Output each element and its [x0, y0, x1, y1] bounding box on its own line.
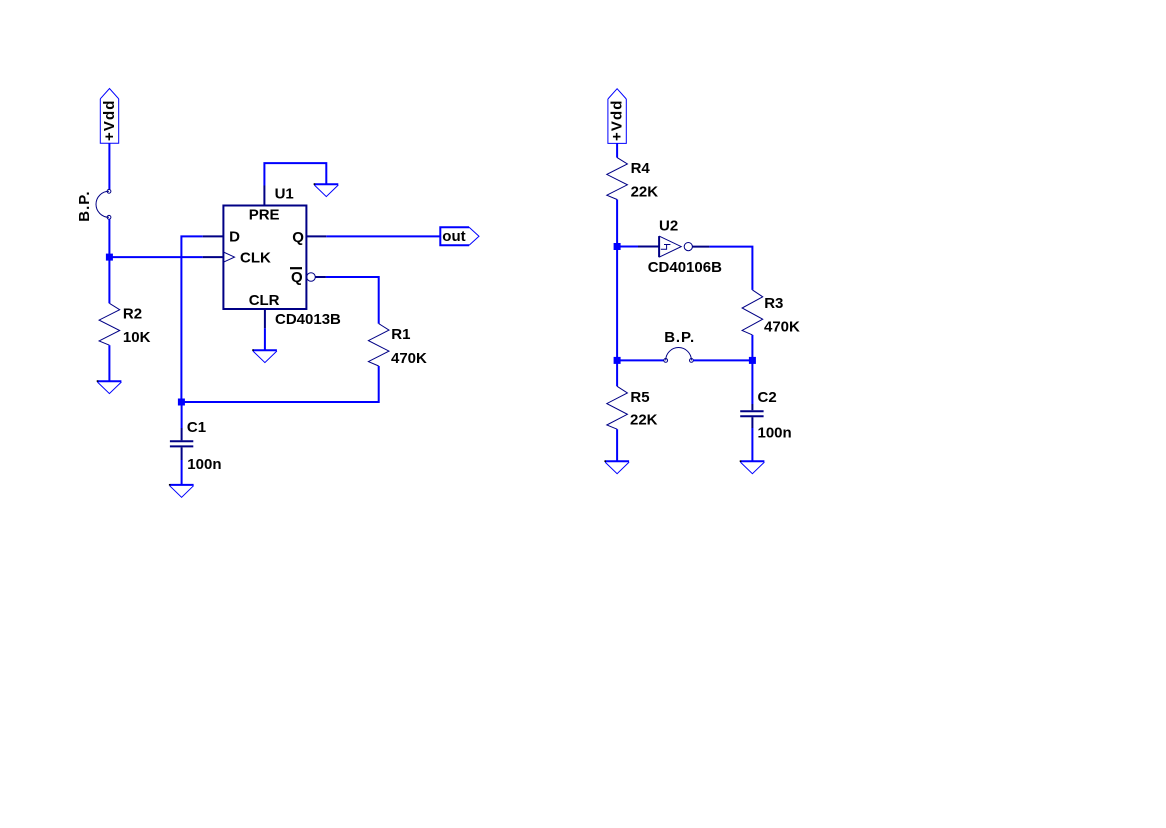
junction node (left, R5/button) — [614, 357, 621, 364]
junction node (left rail to CLK) — [106, 254, 113, 261]
inverter U2 (Schmitt) — [638, 236, 709, 257]
wire R3 to right node — [751, 335, 753, 361]
wire Q to out flag — [326, 235, 440, 237]
wire D feedback (D pin down to bottom rail) — [181, 236, 202, 402]
svg-text:U2: U2 — [659, 217, 678, 234]
svg-text:CLK: CLK — [240, 250, 271, 267]
ground (under R2) — [97, 380, 122, 393]
ground (CLR) — [252, 349, 277, 362]
svg-text:+Vdd: +Vdd — [101, 100, 118, 142]
resistor R3 — [742, 290, 763, 335]
svg-text:C1: C1 — [187, 419, 206, 436]
wire left node to R5 — [616, 360, 618, 386]
power flag +Vdd (left) — [100, 89, 118, 144]
triangle — [658, 236, 660, 257]
junction node (feedback / C1) — [178, 399, 185, 406]
wire PRE to ground — [264, 163, 326, 185]
wire left rail (node to node) — [616, 247, 618, 361]
svg-text:CD40106B: CD40106B — [648, 259, 722, 276]
svg-text:+Vdd: +Vdd — [608, 100, 625, 142]
pushbutton B.P. (left) — [76, 189, 111, 221]
svg-text:B.P.: B.P. — [664, 329, 695, 346]
wire CLR to ground — [264, 328, 266, 350]
capacitor C1 — [170, 428, 193, 460]
svg-text:out: out — [442, 228, 465, 245]
output bubble — [684, 243, 692, 251]
junction node (U2 input) — [614, 243, 621, 250]
pushbutton B.P. (right) — [664, 329, 695, 362]
svg-text:R5: R5 — [630, 389, 649, 406]
svg-text:R3: R3 — [764, 295, 783, 312]
wire +Vdd to pushbutton — [108, 143, 110, 189]
svg-text:22K: 22K — [631, 183, 659, 200]
wire left node to pushbutton — [617, 359, 664, 361]
svg-text:CLR: CLR — [249, 292, 280, 309]
wire C2 to ground — [751, 428, 753, 461]
input pin stub — [638, 246, 659, 248]
capacitor C2 — [740, 404, 763, 428]
wire right node to C2 — [751, 360, 753, 404]
wire pushbutton to right node — [693, 359, 752, 361]
wire R2 to ground — [108, 345, 110, 381]
resistor R2 — [99, 303, 120, 345]
resistor R5 — [607, 386, 628, 429]
pin PRE stub — [263, 186, 265, 206]
ground (C2) — [740, 460, 765, 473]
clock wedge — [223, 252, 234, 262]
pin Qbar stub — [315, 276, 326, 278]
resistor R4 — [607, 158, 628, 200]
pin CLR stub — [264, 309, 266, 328]
flip-flop U1 body — [203, 186, 327, 329]
wire +Vdd to R4 — [616, 143, 618, 157]
wire node to CLK pin — [109, 256, 202, 258]
svg-text:Q: Q — [291, 269, 303, 286]
svg-text:22K: 22K — [630, 412, 658, 429]
wire R5 to ground — [616, 429, 618, 461]
wire R4 to node — [616, 200, 618, 247]
svg-text:100n: 100n — [187, 456, 221, 473]
svg-text:10K: 10K — [123, 329, 151, 346]
pin Qbar bubble — [307, 273, 316, 282]
svg-text:PRE: PRE — [249, 207, 280, 224]
svg-text:R1: R1 — [391, 326, 410, 343]
svg-text:Q: Q — [292, 229, 304, 246]
power flag +Vdd (right) — [608, 89, 626, 144]
wire U2 output to R3 — [709, 247, 752, 290]
wire Qbar to R1 — [326, 277, 379, 324]
hysteresis glyph — [661, 245, 667, 250]
wire node to R2 — [108, 257, 110, 303]
wire pushbutton to node — [108, 219, 110, 257]
svg-text:R2: R2 — [123, 306, 142, 323]
wire R1 to bottom rail — [181, 366, 378, 402]
pin label Qbar — [290, 268, 303, 286]
output flag out — [440, 227, 479, 245]
wire node to C1 — [181, 402, 183, 428]
output pin stub — [692, 246, 709, 248]
junction node (right, R3/C2/button) — [749, 357, 756, 364]
svg-text:C2: C2 — [758, 389, 777, 406]
pin CLK stub — [203, 256, 224, 258]
resistor R1 — [368, 324, 389, 366]
svg-text:100n: 100n — [758, 425, 792, 442]
svg-text:R4: R4 — [631, 160, 651, 177]
ground (R5) — [604, 460, 629, 473]
ground (C1) — [169, 484, 194, 497]
svg-text:470K: 470K — [764, 319, 800, 336]
svg-text:470K: 470K — [391, 350, 427, 367]
svg-text:B.P.: B.P. — [76, 190, 93, 221]
pin D stub — [203, 235, 224, 237]
wire C1 to ground — [181, 460, 183, 485]
wire node to U2 input — [617, 246, 638, 248]
svg-text:D: D — [229, 228, 240, 245]
svg-text:U1: U1 — [275, 186, 294, 203]
ground (PRE) — [314, 183, 339, 196]
pin Q stub — [306, 235, 326, 237]
svg-text:CD4013B: CD4013B — [275, 311, 341, 328]
